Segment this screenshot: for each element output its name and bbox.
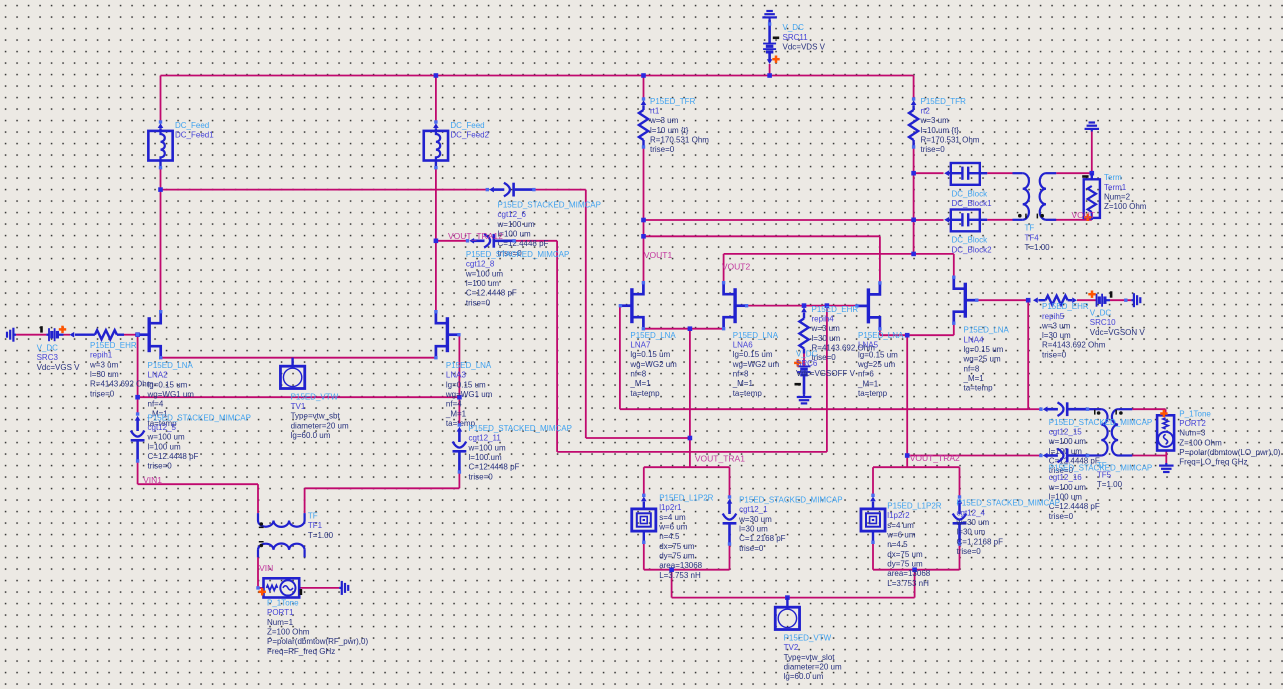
wire TRA1 loop left upper bbox=[643, 467, 645, 495]
svg-text:P15ED_LNA: P15ED_LNA bbox=[964, 326, 1010, 335]
wire TRA2 loop bottom bbox=[873, 569, 960, 571]
wire repih5 chain to battery bbox=[1077, 299, 1097, 301]
wire LNA6-LNA5 gate link y=305.6 bbox=[747, 305, 857, 307]
wire TF1 right down bbox=[304, 488, 306, 513]
wire SRC3 ground to battery bbox=[16, 334, 46, 336]
svg-text:C=12.4448 pF: C=12.4448 pF bbox=[466, 289, 517, 298]
svg-text:cgt12_11: cgt12_11 bbox=[469, 434, 502, 443]
ground (PORT1 right) bbox=[339, 587, 342, 589]
wire right y=451.9 bbox=[557, 451, 827, 453]
wire down x=557.1 bbox=[556, 241, 558, 452]
svg-text:area=13068: area=13068 bbox=[659, 561, 702, 570]
wire TF4 bottom to Term1 bottom (VOUT) bbox=[1046, 219, 1092, 221]
svg-text:lg=0.15 um: lg=0.15 um bbox=[733, 350, 773, 359]
svg-text:_M=1: _M=1 bbox=[732, 379, 754, 388]
junction bbox=[688, 326, 693, 331]
svg-text:P15ED_EHR: P15ED_EHR bbox=[90, 341, 137, 350]
svg-text:P15ED_L1P2R: P15ED_L1P2R bbox=[659, 494, 713, 503]
svg-text:Z=100 Ohm: Z=100 Ohm bbox=[1179, 438, 1222, 447]
wire bottom link to TV2 bbox=[672, 597, 915, 599]
svg-text:C=12.4448 pF: C=12.4448 pF bbox=[469, 463, 520, 472]
wire TRA1 loop bottom bbox=[644, 569, 730, 571]
svg-text:l=30 um: l=30 um bbox=[1042, 331, 1071, 340]
wire SRC11 to bus bbox=[769, 64, 771, 76]
svg-text:P15ED_VTW: P15ED_VTW bbox=[291, 392, 339, 401]
transistor LNA2 (P15ED_LNA) bbox=[147, 317, 150, 352]
wire down to TF1 bbox=[257, 484, 259, 513]
junction bbox=[1026, 298, 1031, 303]
svg-text:diameter=20 um: diameter=20 um bbox=[291, 421, 349, 430]
wire cgt12_8 right bbox=[514, 240, 557, 242]
svg-text:l=100 um: l=100 um bbox=[148, 442, 181, 451]
svg-text:l1p2r1: l1p2r1 bbox=[659, 503, 682, 512]
svg-text:TF: TF bbox=[1025, 224, 1035, 233]
wire to TF1 right bbox=[305, 487, 460, 489]
svg-text:P15ED_L1P2R: P15ED_L1P2R bbox=[887, 502, 941, 511]
junction bbox=[457, 395, 462, 400]
svg-text:cgt12_6: cgt12_6 bbox=[498, 210, 527, 219]
svg-text:l=30 um: l=30 um bbox=[812, 334, 841, 343]
wire TF4 to Term1 node bbox=[1056, 172, 1092, 174]
svg-text:DC_Feed2: DC_Feed2 bbox=[450, 131, 489, 140]
via TV1 (P15ED_VTW) bbox=[291, 358, 293, 367]
svg-text:trise=0: trise=0 bbox=[90, 389, 115, 398]
svg-text:repih1: repih1 bbox=[90, 351, 113, 360]
wire rt2 top stub bbox=[913, 76, 915, 100]
svg-text:wg=25 um: wg=25 um bbox=[963, 355, 1001, 364]
junction bbox=[911, 252, 916, 257]
svg-text:Term: Term bbox=[1104, 173, 1122, 182]
junction bbox=[767, 73, 772, 78]
svg-text:trise=0: trise=0 bbox=[921, 145, 946, 154]
svg-text:V_DC: V_DC bbox=[1090, 309, 1112, 318]
wire VOUT1 to DC_Block2 bbox=[644, 219, 944, 221]
ground (SRC3 left) bbox=[13, 334, 16, 336]
svg-text:cgt12_4: cgt12_4 bbox=[957, 508, 986, 517]
wire LNA5 drain bbox=[879, 236, 881, 283]
svg-text:nf=4: nf=4 bbox=[148, 400, 164, 409]
svg-text:repih4: repih4 bbox=[812, 315, 835, 324]
wire LNA7 gate vertical bbox=[619, 306, 621, 410]
junction bbox=[641, 234, 646, 239]
wire rt1 bottom to LNA7 drain bbox=[643, 147, 645, 283]
wire TRA2 drop bbox=[914, 570, 916, 598]
svg-text:dx=75 um: dx=75 um bbox=[659, 542, 695, 551]
transistor LNA7 (P15ED_LNA) bbox=[630, 288, 633, 323]
svg-text:PORT2: PORT2 bbox=[1179, 419, 1206, 428]
svg-text:VIN1: VIN1 bbox=[143, 475, 162, 485]
terminator Term1 bbox=[1091, 173, 1093, 180]
svg-text:w=100 um: w=100 um bbox=[468, 443, 506, 452]
svg-text:P15ED_STACKED_MIMCAP: P15ED_STACKED_MIMCAP bbox=[1049, 464, 1152, 473]
svg-text:lg=60.0 um: lg=60.0 um bbox=[784, 672, 824, 681]
junction bbox=[135, 395, 140, 400]
svg-text:diameter=20 um: diameter=20 um bbox=[784, 662, 842, 671]
ground (Term1 top) bbox=[1091, 129, 1093, 132]
svg-text:cgt12_5: cgt12_5 bbox=[148, 423, 177, 432]
transformer TF1 bbox=[257, 513, 259, 520]
svg-text:l=10 um {t}: l=10 um {t} bbox=[650, 126, 689, 135]
svg-text:VOUT: VOUT bbox=[1072, 210, 1096, 220]
svg-text:TV1: TV1 bbox=[291, 402, 306, 411]
svg-text:TV2: TV2 bbox=[784, 643, 799, 652]
svg-text:R=170.531 Ohm: R=170.531 Ohm bbox=[650, 135, 709, 144]
svg-text:TF4: TF4 bbox=[1025, 233, 1040, 242]
junction bbox=[825, 303, 830, 308]
svg-text:lg=60.0 um: lg=60.0 um bbox=[291, 431, 331, 440]
svg-text:Num=1: Num=1 bbox=[267, 618, 294, 627]
svg-text:wg=WG2 um: wg=WG2 um bbox=[732, 360, 780, 369]
svg-text:Num=2: Num=2 bbox=[1104, 193, 1131, 202]
svg-text:Vdc=VDS V: Vdc=VDS V bbox=[783, 43, 826, 52]
wire LNA3 gate vertical bbox=[458, 335, 460, 425]
svg-text:cgt12_15: cgt12_15 bbox=[1049, 427, 1082, 436]
svg-text:ta=temp: ta=temp bbox=[630, 389, 660, 398]
svg-text:w=100 um: w=100 um bbox=[1048, 483, 1086, 492]
svg-text:wg=WG1 um: wg=WG1 um bbox=[147, 390, 195, 399]
V_DC source SRC10 bbox=[1096, 294, 1098, 307]
svg-text:dy=75 um: dy=75 um bbox=[887, 559, 923, 568]
transistor LNA4 (P15ED_LNA) bbox=[964, 283, 967, 318]
svg-text:V_DC: V_DC bbox=[796, 350, 818, 359]
svg-text:P_1Tone: P_1Tone bbox=[267, 599, 299, 608]
wire TRA2 loop left lower bbox=[872, 542, 874, 569]
svg-text:TF1: TF1 bbox=[308, 521, 323, 530]
wire VOUT2 to LNA4 drain bbox=[953, 254, 955, 277]
wire DC_Feed2 bottom to LNA3 drain bbox=[435, 168, 437, 312]
capacitor cgt12_16 (P15ED_STACKED_MIMCAP) bbox=[1039, 454, 1042, 457]
junction bbox=[641, 218, 646, 223]
wire LNA7 source bbox=[643, 328, 690, 330]
wire TF1 to PORT1 bbox=[257, 557, 259, 588]
wire VOUT_TRA12 branch to cgt12_8 bbox=[436, 240, 468, 242]
svg-text:w=30 um: w=30 um bbox=[956, 518, 990, 527]
svg-text:P=polar(dbmtow(RF_pwr),0): P=polar(dbmtow(RF_pwr),0) bbox=[267, 637, 368, 646]
svg-text:P15ED_EHR: P15ED_EHR bbox=[1042, 302, 1089, 311]
svg-text:TF: TF bbox=[308, 512, 318, 521]
wire to VOUT_TRA1 feed bbox=[586, 437, 690, 439]
svg-text:P15ED_LNA: P15ED_LNA bbox=[446, 361, 492, 370]
svg-text:VOUT_TRA2: VOUT_TRA2 bbox=[910, 453, 960, 463]
svg-text:T=1.00: T=1.00 bbox=[1097, 480, 1123, 489]
junction bbox=[912, 567, 917, 572]
svg-text:w=3 um: w=3 um bbox=[920, 116, 950, 125]
junction bbox=[911, 218, 916, 223]
svg-text:T=1.00: T=1.00 bbox=[308, 531, 334, 540]
capacitor cgt12_1 (P15ED_STACKED_MIMCAP) bbox=[728, 495, 731, 498]
junction bbox=[688, 436, 693, 441]
svg-text:trise=0: trise=0 bbox=[957, 547, 982, 556]
svg-text:w=6 um: w=6 um bbox=[658, 522, 688, 531]
junction bbox=[135, 332, 140, 337]
svg-text:cgt12_1: cgt12_1 bbox=[739, 505, 768, 514]
transformer TF4 bbox=[1013, 172, 1023, 174]
svg-text:R=4143.692 Ohm: R=4143.692 Ohm bbox=[90, 380, 154, 389]
svg-text:trise=0: trise=0 bbox=[739, 544, 764, 553]
svg-text:l=100.um: l=100.um bbox=[469, 453, 502, 462]
svg-text:P15ED_STACKED_MIMCAP: P15ED_STACKED_MIMCAP bbox=[469, 424, 572, 433]
junction bbox=[905, 333, 910, 338]
svg-text:P15ED_LNA: P15ED_LNA bbox=[733, 331, 779, 340]
resistor repih5 (P15ED_EHR) bbox=[1033, 297, 1038, 303]
transistor LNA6 (P15ED_LNA) bbox=[733, 288, 736, 323]
svg-text:lg=0.15 um: lg=0.15 um bbox=[964, 345, 1004, 354]
wire PORT1 lead bbox=[258, 587, 264, 589]
junction bbox=[802, 303, 807, 308]
svg-text:w=100 um: w=100 um bbox=[465, 269, 503, 278]
port PORT1 (P_1Tone) bbox=[264, 578, 300, 597]
svg-text:P15ED_LNA: P15ED_LNA bbox=[148, 361, 194, 370]
svg-text:repih5: repih5 bbox=[1042, 312, 1065, 321]
svg-text:VOUT1: VOUT1 bbox=[644, 250, 673, 260]
svg-text:R=170.531 Ohm: R=170.531 Ohm bbox=[921, 135, 980, 144]
wire DC_Block1 to TF4 bbox=[987, 172, 1012, 174]
wire repih4 bottom to SRC6 bbox=[803, 354, 805, 367]
transformer TF5 bbox=[1088, 408, 1102, 410]
wire cgt12_16 to TF5 bbox=[1088, 455, 1102, 457]
svg-text:l=100 um: l=100 um bbox=[466, 279, 499, 288]
inductor DC_Feed1 bbox=[159, 120, 162, 123]
svg-text:rt2: rt2 bbox=[921, 106, 931, 115]
capacitor cgt12_8 (P15ED_STACKED_MIMCAP) bbox=[466, 239, 469, 242]
junction bbox=[911, 171, 916, 176]
wire TRA1 drop bbox=[671, 570, 673, 598]
svg-text:w=30 um: w=30 um bbox=[738, 515, 772, 524]
svg-text:ta=temp: ta=temp bbox=[733, 389, 763, 398]
svg-text:P15ED_VTW: P15ED_VTW bbox=[784, 634, 832, 643]
svg-text:LNA3: LNA3 bbox=[446, 371, 467, 380]
transistor LNA3 (P15ED_LNA) bbox=[446, 317, 449, 352]
svg-text:Z=100 Ohm: Z=100 Ohm bbox=[1104, 202, 1147, 211]
wire LNA2 gate lead bbox=[138, 334, 148, 336]
wire rt1 top stub bbox=[643, 76, 645, 100]
wire VOUT_TRA2 to cgt12_16 bbox=[907, 455, 1041, 457]
svg-text:Vdc=VGS V: Vdc=VGS V bbox=[37, 363, 81, 372]
svg-text:DC_Block1: DC_Block1 bbox=[952, 199, 993, 208]
wire TF5 bottom to PORT2 ground bbox=[1118, 455, 1166, 457]
inductor DC_Feed2 bbox=[434, 120, 437, 123]
svg-text:DC_Block: DC_Block bbox=[952, 236, 989, 245]
svg-text:ta=temp: ta=temp bbox=[858, 389, 888, 398]
svg-text:cgt12_16: cgt12_16 bbox=[1049, 473, 1082, 482]
svg-text:PORT1: PORT1 bbox=[267, 608, 294, 617]
resistor repih1 (P15ED_EHR) bbox=[69, 332, 74, 338]
svg-text:V_DC: V_DC bbox=[37, 344, 59, 353]
svg-text:DC_Feed: DC_Feed bbox=[450, 121, 484, 130]
wire LNA2 drain branch to cgt12_6 bbox=[161, 189, 488, 191]
wire rt2 to DC_Block1 bbox=[914, 172, 944, 174]
svg-text:wg=25 um: wg=25 um bbox=[857, 360, 895, 369]
capacitor cgt12_15 (P15ED_STACKED_MIMCAP) bbox=[1039, 408, 1042, 411]
svg-text:Freq=LO_freq GHz: Freq=LO_freq GHz bbox=[1179, 458, 1247, 467]
svg-text:wg=WG1 um: wg=WG1 um bbox=[445, 390, 493, 399]
svg-text:L=3.753 nH: L=3.753 nH bbox=[659, 571, 701, 580]
wire gate bias bus y=397.2 bbox=[138, 396, 460, 398]
wire TF5 to PORT2 bbox=[1132, 408, 1165, 410]
wire TRA2 loop left upper bbox=[872, 467, 874, 495]
svg-text:P15ED_STACKED_MIMCAP: P15ED_STACKED_MIMCAP bbox=[498, 201, 601, 210]
svg-text:_M=1: _M=1 bbox=[629, 379, 651, 388]
svg-text:VOUT_TRA12: VOUT_TRA12 bbox=[448, 231, 503, 241]
svg-text:n=4.5: n=4.5 bbox=[659, 532, 680, 541]
wire VOUT2 to LNA6 drain bbox=[723, 254, 725, 283]
svg-text:P15ED_STACKED_MIMCAP: P15ED_STACKED_MIMCAP bbox=[466, 250, 569, 259]
svg-text:lg=0.15 um: lg=0.15 um bbox=[630, 350, 670, 359]
svg-text:wg=WG2 um: wg=WG2 um bbox=[629, 360, 677, 369]
svg-text:P15ED_TFR: P15ED_TFR bbox=[650, 97, 696, 106]
svg-text:lg=0.15 um: lg=0.15 um bbox=[148, 380, 188, 389]
svg-text:trise=0: trise=0 bbox=[466, 298, 491, 307]
svg-text:C=1.2168 pF: C=1.2168 pF bbox=[957, 537, 1004, 546]
wire VOUT_TRA2 feed bbox=[906, 335, 908, 467]
svg-text:ta=temp: ta=temp bbox=[964, 384, 994, 393]
svg-text:w=3 um: w=3 um bbox=[649, 116, 679, 125]
svg-text:C=1.2168 pF: C=1.2168 pF bbox=[739, 534, 786, 543]
svg-text:trise=0: trise=0 bbox=[1049, 512, 1074, 521]
svg-text:V_DC: V_DC bbox=[783, 23, 805, 32]
V_DC source SRC11 with ground bbox=[768, 17, 770, 20]
svg-text:w=6 um: w=6 um bbox=[886, 530, 916, 539]
svg-text:area=13068: area=13068 bbox=[887, 569, 930, 578]
svg-text:P15ED_STACKED_MIMCAP: P15ED_STACKED_MIMCAP bbox=[957, 499, 1060, 508]
svg-text:SRC3: SRC3 bbox=[37, 353, 59, 362]
svg-text:l=30 um: l=30 um bbox=[739, 524, 768, 533]
svg-text:nf=8: nf=8 bbox=[733, 370, 749, 379]
wire battery to ground SRC10 bbox=[1110, 299, 1131, 301]
ground (SRC10 right) bbox=[1131, 299, 1134, 301]
svg-text:n=4.5: n=4.5 bbox=[887, 540, 908, 549]
svg-text:rt1: rt1 bbox=[650, 106, 660, 115]
wire corner down x=585.8 bbox=[585, 190, 587, 438]
svg-text:trise=0: trise=0 bbox=[148, 462, 173, 471]
svg-text:P15ED_EHR: P15ED_EHR bbox=[812, 305, 859, 314]
capacitor cgt12_5 (P15ED_STACKED_MIMCAP) bbox=[136, 412, 139, 415]
svg-text:Type=vtw_sbt: Type=vtw_sbt bbox=[291, 412, 341, 421]
DC_Block2 bbox=[944, 217, 949, 223]
svg-text:nf=4: nf=4 bbox=[446, 400, 462, 409]
wire TRA2 loop right lower bbox=[959, 544, 961, 570]
V_DC source SRC3 bbox=[46, 334, 49, 336]
svg-text:SRC11: SRC11 bbox=[783, 33, 809, 42]
capacitor cgt12_4 (P15ED_STACKED_MIMCAP) bbox=[958, 495, 961, 498]
svg-text:_M=1: _M=1 bbox=[857, 379, 879, 388]
svg-text:_M=1: _M=1 bbox=[445, 409, 467, 418]
wire TRA2 loop top bbox=[873, 466, 960, 468]
wire gate bus y=409.2 bbox=[620, 408, 1028, 410]
wire TRA1 loop right upper bbox=[729, 467, 731, 497]
svg-text:Z=100 Ohm: Z=100 Ohm bbox=[267, 627, 310, 636]
svg-text:R=4143.692 Ohm: R=4143.692 Ohm bbox=[812, 344, 876, 353]
junction bbox=[434, 239, 439, 244]
svg-text:L=3.753 nH: L=3.753 nH bbox=[887, 579, 929, 588]
V_DC source SRC6 with ground bbox=[798, 365, 811, 367]
svg-text:l=30 um: l=30 um bbox=[957, 528, 986, 537]
svg-text:VIN: VIN bbox=[259, 563, 273, 573]
svg-text:T=1.00: T=1.00 bbox=[1025, 243, 1051, 252]
svg-text:LNA2: LNA2 bbox=[148, 371, 169, 380]
svg-text:Vdc=VGSON V: Vdc=VGSON V bbox=[1090, 328, 1146, 337]
wire VOUT_TRA1 feed bbox=[689, 329, 691, 468]
wire DC_Feed1 bottom to LNA2 drain bbox=[160, 168, 162, 312]
wire LNA2-LNA3 source link bbox=[161, 357, 436, 359]
svg-text:R=4143.692 Ohm: R=4143.692 Ohm bbox=[1042, 341, 1106, 350]
resistor repih4 (P15ED_EHR) vertical bbox=[801, 307, 807, 312]
svg-text:DC_Block2: DC_Block2 bbox=[952, 245, 993, 254]
svg-text:LNA4: LNA4 bbox=[964, 335, 985, 344]
svg-text:Freq=RF_freq GHz: Freq=RF_freq GHz bbox=[267, 647, 335, 656]
junction bbox=[434, 73, 439, 78]
wire battery to repih1 bbox=[64, 334, 71, 336]
wire bus to cgt12_15 bbox=[1028, 408, 1041, 410]
wire gate node down to cgt12_5 bbox=[137, 335, 139, 414]
svg-text:w=3 um: w=3 um bbox=[1041, 321, 1071, 330]
svg-text:P15ED_STACKED_MIMCAP: P15ED_STACKED_MIMCAP bbox=[739, 496, 842, 505]
svg-text:trise=0: trise=0 bbox=[469, 472, 494, 481]
inductor l1p2r2 (P15ED_L1P2R) bbox=[871, 494, 874, 497]
svg-text:s=4 um: s=4 um bbox=[887, 521, 914, 530]
junction bbox=[905, 453, 910, 458]
svg-text:trise=0: trise=0 bbox=[650, 145, 675, 154]
svg-text:w=3 um: w=3 um bbox=[89, 360, 119, 369]
capacitor cgt12_6 (P15ED_STACKED_MIMCAP) bbox=[486, 188, 489, 191]
wire VIN1 horizontal bbox=[138, 483, 258, 485]
svg-text:P15ED_STACKED_MIMCAP: P15ED_STACKED_MIMCAP bbox=[148, 413, 251, 422]
wire repih1 to LNA2 gate node bbox=[124, 334, 138, 336]
wire TRA2 loop right upper bbox=[959, 467, 961, 497]
svg-text:Num=3: Num=3 bbox=[1179, 429, 1206, 438]
junction bbox=[1090, 171, 1095, 176]
svg-text:DC_Block: DC_Block bbox=[952, 190, 989, 199]
wire VOUT2 horizontal bbox=[724, 253, 954, 255]
svg-text:nf=8: nf=8 bbox=[964, 364, 980, 373]
svg-text:P15ED_STACKED_MIMCAP: P15ED_STACKED_MIMCAP bbox=[1049, 418, 1152, 427]
svg-text:nf=6: nf=6 bbox=[858, 370, 874, 379]
svg-text:w=100 um: w=100 um bbox=[497, 220, 535, 229]
resistor rt1 (P15ED_TFR) bbox=[642, 97, 645, 100]
wire LNA4 gate to repih5 node bbox=[977, 299, 1028, 301]
svg-text:w=3 um: w=3 um bbox=[811, 324, 841, 333]
svg-text:P15ED_LNA: P15ED_LNA bbox=[630, 331, 676, 340]
junction bbox=[669, 567, 674, 572]
via TV2 (P15ED_VTW) bbox=[786, 598, 788, 608]
svg-text:P15ED_LNA: P15ED_LNA bbox=[858, 331, 904, 340]
wire cgt12_11 bottom bbox=[458, 472, 460, 488]
svg-text:nf=8: nf=8 bbox=[630, 370, 646, 379]
wire DC_Block2 to TF4 bbox=[987, 219, 1012, 221]
svg-text:SRC6: SRC6 bbox=[796, 359, 818, 368]
svg-text:P_1Tone: P_1Tone bbox=[1179, 409, 1211, 418]
transistor LNA5 (P15ED_LNA) bbox=[867, 288, 870, 323]
svg-text:cgt12_8: cgt12_8 bbox=[466, 260, 495, 269]
svg-text:l1p2r2: l1p2r2 bbox=[887, 511, 910, 520]
wire LNA4 source bbox=[953, 323, 955, 335]
wire PORT1 out to ground bbox=[299, 587, 339, 589]
wire LNA5-LNA4 source link bbox=[880, 334, 954, 336]
wire DC_Feed1 top bbox=[160, 76, 162, 123]
wire cgt12_5 bottom bbox=[137, 461, 139, 484]
svg-text:P=polar(dbmtow(LO_pwr),0): P=polar(dbmtow(LO_pwr),0) bbox=[1179, 448, 1280, 457]
svg-text:DC_Feed: DC_Feed bbox=[175, 121, 209, 130]
svg-text:VOUT2: VOUT2 bbox=[722, 261, 751, 271]
svg-text:Vdc=VGSOFF V: Vdc=VGSOFF V bbox=[796, 369, 856, 378]
svg-text:SRC10: SRC10 bbox=[1090, 318, 1116, 327]
svg-text:w=100 um: w=100 um bbox=[147, 433, 185, 442]
wire PORT2 stem bbox=[1165, 409, 1167, 415]
svg-text:l=30 um: l=30 um bbox=[90, 370, 119, 379]
wire DC_Feed2 top bbox=[435, 76, 437, 123]
capacitor cgt12_11 (P15ED_STACKED_MIMCAP) bbox=[458, 423, 461, 426]
svg-text:w=100 um: w=100 um bbox=[1048, 437, 1086, 446]
